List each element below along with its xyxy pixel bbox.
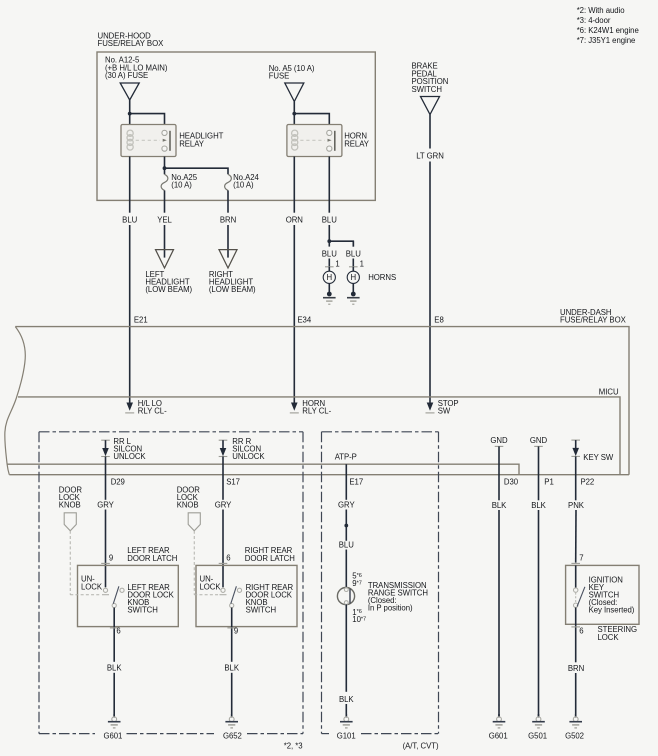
svg-text:(A/T, CVT): (A/T, CVT) — [403, 742, 439, 751]
svg-text:BLU: BLU — [322, 249, 337, 258]
svg-text:G502: G502 — [565, 732, 584, 741]
svg-text:BLU: BLU — [122, 215, 137, 224]
svg-text:GRY: GRY — [215, 500, 232, 509]
svg-text:RLY CL-: RLY CL- — [138, 407, 167, 416]
svg-text:SWITCH: SWITCH — [127, 606, 157, 615]
svg-text:D29: D29 — [111, 477, 125, 486]
svg-text:KNOB: KNOB — [59, 501, 81, 510]
svg-text:6: 6 — [226, 554, 230, 563]
svg-text:LT GRN: LT GRN — [416, 152, 444, 161]
svg-text:MICU: MICU — [599, 388, 619, 397]
svg-text:SWITCH: SWITCH — [246, 606, 276, 615]
svg-text:*2, *3: *2, *3 — [284, 741, 303, 750]
svg-text:H: H — [351, 273, 357, 282]
svg-text:YEL: YEL — [157, 215, 172, 224]
svg-text:Key Inserted): Key Inserted) — [589, 605, 635, 614]
svg-text:BLK: BLK — [492, 501, 507, 510]
svg-text:RLY CL-: RLY CL- — [302, 407, 331, 416]
svg-text:G101: G101 — [337, 732, 356, 741]
svg-text:1: 1 — [360, 259, 364, 268]
svg-text:6: 6 — [579, 626, 583, 635]
svg-text:7: 7 — [579, 554, 583, 563]
svg-text:E8: E8 — [434, 315, 443, 324]
svg-text:P22: P22 — [581, 477, 595, 486]
svg-text:ATP-P: ATP-P — [335, 452, 357, 461]
svg-text:KEY SW: KEY SW — [583, 453, 614, 462]
svg-text:(LOW BEAM): (LOW BEAM) — [209, 285, 256, 294]
svg-text:LOCK: LOCK — [200, 582, 222, 591]
svg-text:(30 A) FUSE: (30 A) FUSE — [105, 71, 148, 80]
svg-text:FUSE/RELAY BOX: FUSE/RELAY BOX — [560, 316, 627, 325]
svg-text:GND: GND — [530, 436, 548, 445]
svg-text:*7: J35Y1 engine: *7: J35Y1 engine — [577, 36, 636, 45]
svg-text:(10 A): (10 A) — [171, 181, 192, 190]
svg-text:BLK: BLK — [531, 501, 546, 510]
svg-text:E21: E21 — [134, 315, 148, 324]
svg-text:(LOW BEAM): (LOW BEAM) — [145, 285, 192, 294]
svg-text:G501: G501 — [528, 732, 547, 741]
svg-text:HORNS: HORNS — [368, 273, 396, 282]
svg-text:G601: G601 — [489, 732, 508, 741]
svg-text:UNLOCK: UNLOCK — [113, 452, 146, 461]
svg-text:BLU: BLU — [346, 249, 361, 258]
svg-text:*2: With audio: *2: With audio — [577, 6, 626, 15]
svg-text:RELAY: RELAY — [344, 140, 370, 149]
svg-text:BLU: BLU — [322, 215, 337, 224]
svg-text:BRN: BRN — [220, 215, 236, 224]
svg-text:H: H — [327, 273, 333, 282]
svg-text:G652: G652 — [223, 732, 242, 741]
svg-text:(10 A): (10 A) — [233, 181, 254, 190]
svg-text:UNLOCK: UNLOCK — [232, 452, 265, 461]
svg-text:E34: E34 — [297, 315, 311, 324]
svg-text:FUSE/RELAY BOX: FUSE/RELAY BOX — [98, 39, 165, 48]
svg-text:SWITCH: SWITCH — [412, 85, 442, 94]
svg-text:GRY: GRY — [97, 500, 114, 509]
svg-text:DOOR LATCH: DOOR LATCH — [127, 554, 177, 563]
svg-text:BLK: BLK — [339, 695, 354, 704]
svg-text:In P position): In P position) — [368, 603, 413, 612]
svg-text:GND: GND — [490, 436, 508, 445]
svg-text:9: 9 — [109, 554, 113, 563]
svg-text:BLK: BLK — [107, 664, 122, 673]
svg-text:DOOR LATCH: DOOR LATCH — [245, 554, 295, 563]
svg-text:BLU: BLU — [339, 541, 354, 550]
svg-text:BRN: BRN — [568, 664, 584, 673]
svg-text:GRY: GRY — [338, 500, 355, 509]
svg-text:LOCK: LOCK — [81, 582, 103, 591]
svg-text:S17: S17 — [226, 477, 240, 486]
svg-text:BLK: BLK — [224, 664, 239, 673]
svg-text:SW: SW — [438, 407, 451, 416]
svg-text:D30: D30 — [504, 477, 519, 486]
svg-text:6: 6 — [116, 626, 120, 635]
svg-text:PNK: PNK — [568, 501, 585, 510]
svg-text:G601: G601 — [103, 732, 122, 741]
svg-text:RELAY: RELAY — [179, 140, 205, 149]
svg-text:*6: K24W1 engine: *6: K24W1 engine — [577, 26, 639, 35]
svg-text:*3: 4-door: *3: 4-door — [577, 16, 611, 25]
svg-text:E17: E17 — [349, 477, 363, 486]
svg-text:KNOB: KNOB — [177, 501, 199, 510]
svg-text:P1: P1 — [544, 477, 553, 486]
svg-text:ORN: ORN — [286, 215, 303, 224]
svg-text:9: 9 — [234, 626, 238, 635]
svg-text:LOCK: LOCK — [598, 633, 620, 642]
svg-text:FUSE: FUSE — [269, 71, 290, 80]
svg-text:1: 1 — [335, 259, 339, 268]
